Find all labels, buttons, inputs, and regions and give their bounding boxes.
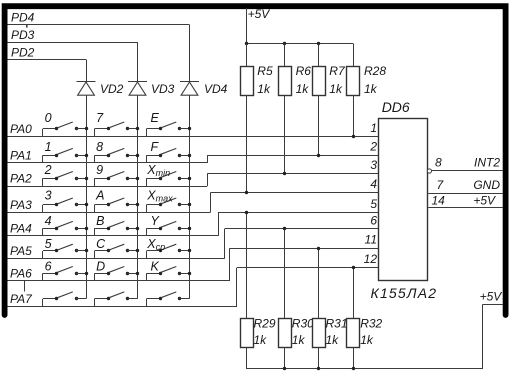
svg-text:+5V: +5V: [480, 290, 503, 304]
svg-text:PD3: PD3: [11, 28, 35, 42]
svg-text:PA1: PA1: [10, 148, 32, 162]
svg-text:1k: 1k: [360, 333, 374, 347]
svg-text:PA3: PA3: [10, 198, 32, 212]
svg-text:4: 4: [370, 177, 377, 191]
svg-text:PA0: PA0: [10, 122, 32, 136]
svg-text:B: B: [96, 214, 104, 228]
svg-text:1k: 1k: [326, 333, 340, 347]
svg-text:6: 6: [370, 213, 377, 227]
svg-text:1k: 1k: [292, 333, 306, 347]
svg-text:0: 0: [45, 111, 52, 125]
svg-text:INT2: INT2: [474, 156, 500, 170]
svg-text:VD4: VD4: [204, 82, 228, 96]
svg-text:PD2: PD2: [11, 45, 35, 59]
svg-text:PA2: PA2: [10, 172, 32, 186]
svg-text:1: 1: [370, 121, 377, 135]
svg-text:9: 9: [96, 163, 103, 177]
svg-text:E: E: [151, 111, 160, 125]
svg-text:D: D: [96, 260, 105, 274]
svg-text:R29: R29: [254, 317, 276, 331]
svg-text:PA5: PA5: [10, 244, 32, 258]
svg-text:5: 5: [370, 197, 377, 211]
svg-text:VD2: VD2: [100, 82, 124, 96]
svg-text:C: C: [96, 237, 106, 251]
svg-text:A: A: [95, 189, 104, 203]
svg-text:14: 14: [432, 194, 446, 208]
svg-text:1k: 1k: [329, 82, 343, 96]
svg-text:R28: R28: [364, 64, 386, 78]
svg-text:R5: R5: [257, 64, 273, 78]
svg-text:2: 2: [44, 163, 52, 177]
svg-text:R30: R30: [292, 317, 314, 331]
svg-text:VD3: VD3: [151, 82, 175, 96]
svg-text:R6: R6: [296, 64, 312, 78]
svg-text:GND: GND: [473, 178, 500, 192]
svg-text:4: 4: [45, 214, 52, 228]
svg-text:R32: R32: [360, 317, 382, 331]
svg-text:8: 8: [96, 140, 103, 154]
svg-text:12: 12: [364, 252, 378, 266]
svg-text:1k: 1k: [254, 333, 268, 347]
svg-text:3: 3: [45, 189, 52, 203]
svg-text:DD6: DD6: [382, 99, 410, 115]
svg-text:1k: 1k: [296, 82, 310, 96]
svg-text:PA7: PA7: [10, 292, 33, 306]
svg-text:8: 8: [435, 156, 442, 170]
svg-text:1k: 1k: [257, 82, 271, 96]
svg-text:R31: R31: [326, 317, 348, 331]
svg-text:3: 3: [370, 158, 377, 172]
svg-text:+5V: +5V: [248, 7, 271, 21]
svg-text:R7: R7: [329, 64, 346, 78]
svg-text:1: 1: [45, 140, 52, 154]
svg-text:+5V: +5V: [473, 194, 496, 208]
svg-text:2: 2: [369, 140, 377, 154]
svg-text:PA4: PA4: [10, 221, 32, 235]
svg-text:PD4: PD4: [11, 11, 35, 25]
svg-text:К155ЛА2: К155ЛА2: [371, 285, 438, 301]
svg-text:7: 7: [96, 111, 104, 125]
svg-text:PA6: PA6: [10, 267, 32, 281]
svg-text:1k: 1k: [364, 82, 378, 96]
svg-text:11: 11: [365, 233, 377, 247]
svg-text:6: 6: [45, 260, 52, 274]
svg-text:5: 5: [45, 237, 52, 251]
svg-text:K: K: [151, 260, 160, 274]
